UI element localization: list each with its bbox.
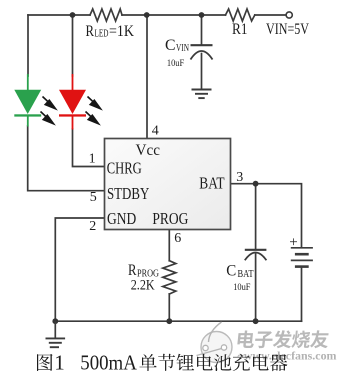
svg-text:R1: R1: [232, 21, 248, 38]
resistor RPROG zigzag vertical: [163, 261, 176, 294]
svg-text:VIN=5V: VIN=5V: [266, 21, 309, 38]
wire CBAT bottom: [255, 254, 257, 321]
wire red LED cathode down and right to CHRG pin1: [73, 129, 105, 167]
junction dot GND rail left: [52, 318, 58, 324]
wire red LED branch down: [72, 15, 74, 76]
wire CVIN top: [201, 15, 203, 44]
svg-text:2.2K: 2.2K: [131, 278, 155, 294]
junction dot RPROG rail: [166, 318, 172, 324]
junction dot CBAT rail: [253, 318, 259, 324]
svg-text:CHRG: CHRG: [107, 159, 142, 178]
junction dot BAT node: [253, 181, 259, 187]
wire top rail left segment: [28, 14, 90, 16]
resistor RLED=1K zigzag: [90, 9, 122, 21]
svg-text:GND: GND: [107, 209, 136, 228]
wire RPROG to bottom rail: [168, 294, 170, 321]
svg-text:LED: LED: [95, 29, 109, 40]
svg-text:PROG: PROG: [152, 209, 188, 228]
svg-text:10uF: 10uF: [233, 282, 251, 293]
LED D2 light arrows: [86, 97, 101, 124]
svg-text:2: 2: [89, 219, 96, 234]
svg-text:R: R: [86, 23, 95, 40]
LED D1 green: [14, 74, 41, 127]
wire left branch down to green LED: [27, 15, 29, 76]
svg-text:6: 6: [174, 231, 181, 246]
svg-text:4: 4: [152, 123, 159, 138]
LED D2 red: [59, 74, 86, 130]
wire GND pin2 left and down: [55, 218, 104, 321]
op IC U1 charger chip body: [105, 139, 231, 230]
junction dot red LED branch: [70, 12, 76, 18]
svg-text:10uF: 10uF: [167, 58, 185, 69]
wire Vcc pin4 vertical: [146, 15, 148, 139]
svg-text:~www.elecfans.com: ~www.elecfans.com: [238, 349, 337, 363]
svg-text:Vcc: Vcc: [136, 142, 161, 159]
svg-text:C: C: [226, 263, 236, 280]
caption text 图: [37, 354, 53, 371]
svg-text:3: 3: [236, 170, 243, 185]
wire CBAT top: [255, 184, 257, 249]
svg-text:1: 1: [89, 151, 96, 166]
junction dot Vcc branch: [144, 12, 150, 18]
wire top rail right segment to VIN terminal: [255, 14, 286, 16]
wire green LED cathode down and right to STDBY pin5: [28, 126, 105, 191]
resistor R1 zigzag: [226, 9, 255, 21]
capacitor CBAT symbol: [245, 250, 267, 260]
svg-text:BAT: BAT: [238, 269, 254, 280]
svg-text:VIN: VIN: [176, 43, 189, 54]
svg-text:STDBY: STDBY: [107, 184, 149, 203]
battery BT1 plates: [291, 248, 313, 267]
wire battery bottom: [301, 267, 303, 321]
capacitor CVIN symbol: [191, 45, 213, 59]
caption text 单节锂电池充电器: [139, 354, 156, 371]
svg-text:500mA: 500mA: [80, 351, 137, 375]
wire BAT pin3 right and down to battery: [231, 184, 302, 247]
ground for CVIN: [192, 90, 212, 99]
ground main (bottom left): [46, 321, 66, 347]
svg-text:1: 1: [54, 351, 64, 375]
terminal VIN open circle: [286, 12, 292, 18]
wire bottom ground rail: [55, 320, 301, 322]
junction dot CVIN branch: [199, 12, 205, 18]
wire CVIN bottom to ground: [201, 54, 203, 89]
wire PROG pin6 down: [168, 230, 170, 261]
watermark logo circle: [197, 322, 233, 363]
watermark text 电子发烧友: [237, 330, 329, 348]
svg-text:R: R: [128, 262, 137, 279]
wire top rail middle segment: [122, 14, 226, 16]
svg-text:+: +: [289, 235, 298, 251]
svg-text:5: 5: [90, 190, 97, 205]
svg-text:=1K: =1K: [109, 23, 134, 40]
svg-text:BAT: BAT: [199, 173, 224, 192]
LED D1 light arrows: [41, 97, 56, 124]
svg-text:C: C: [165, 37, 176, 54]
